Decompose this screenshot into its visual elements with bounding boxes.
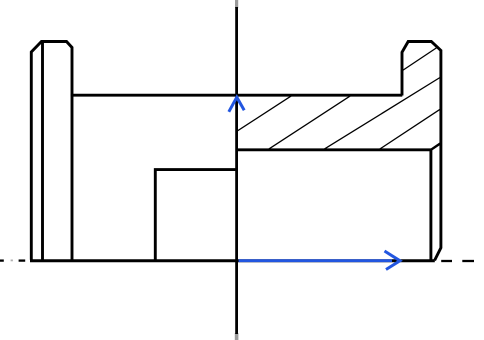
right flange outline (left wall, chamfers, top, right edge, bottom chamfer) [402, 42, 441, 261]
chamfer from band bottom corner to right edge [431, 143, 442, 150]
hatch line H5 (flange) [403, 47, 439, 71]
part bottom edge on axis [30, 259, 435, 262]
inner right vertical line [429, 150, 432, 260]
blue horizontal arrow shaft [239, 259, 392, 262]
horizontal centerline left dash 1 [0, 259, 4, 261]
body top surface line [71, 94, 403, 97]
hatch line H2 [268, 95, 351, 149]
left flange outline (outer edge, chamfers, top, right edge) [31, 42, 72, 260]
hatch line H3 (band into flange) [324, 77, 441, 150]
blue up arrowhead at centerline [229, 97, 244, 112]
hatch line H4 [379, 109, 441, 150]
hatch line H1 [237, 95, 293, 131]
horizontal centerline left dash 2 [19, 259, 26, 261]
left flange inner vertical line [41, 43, 44, 260]
step rectangle (left view) [155, 170, 236, 260]
blue horizontal arrowhead [385, 251, 401, 270]
vertical centerline gray tip top [235, 0, 238, 8]
horizontal centerline left faint dot [11, 259, 13, 261]
horizontal centerline right dash 1 [441, 260, 452, 262]
vertical centerline gray tip bottom [235, 333, 239, 340]
hatched band bottom edge [237, 148, 432, 151]
vertical centerline [235, 7, 238, 334]
horizontal centerline right dash 2 [462, 260, 474, 262]
